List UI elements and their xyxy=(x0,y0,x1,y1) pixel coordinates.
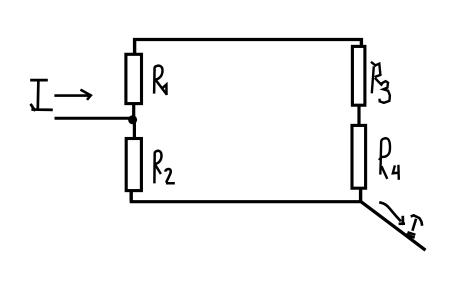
resistor R3 xyxy=(352,46,365,105)
wire input lead to node xyxy=(55,117,131,120)
wire R4 bottom to bottom-right corner xyxy=(359,188,362,203)
wire top-left corner stub down to R1 xyxy=(133,38,136,55)
label R1 xyxy=(154,66,167,95)
label R4 xyxy=(379,138,400,180)
wire R1 bottom to node xyxy=(132,103,135,118)
wire R2 bottom to bottom-left corner xyxy=(129,190,132,201)
wire node to R2 xyxy=(133,119,136,140)
wire bottom (from left branch to right branch) xyxy=(130,200,361,203)
node junction dot xyxy=(128,115,137,124)
label R2 xyxy=(154,151,174,184)
wire R3 to R4 xyxy=(357,105,360,128)
label I (input current) xyxy=(30,80,53,111)
arrow input current direction xyxy=(54,90,90,100)
resistor R4 xyxy=(352,125,366,188)
wire top (from left branch to right branch) xyxy=(133,38,363,41)
resistor R1 xyxy=(126,54,142,103)
arrow output current direction (curved) xyxy=(379,203,405,224)
label I (output current, rotated) xyxy=(406,215,422,237)
wire diagonal output lead xyxy=(361,201,426,250)
wire top-right corner stub down to R3 xyxy=(360,38,363,48)
resistor R2 xyxy=(126,139,141,191)
label R3 xyxy=(371,62,390,103)
